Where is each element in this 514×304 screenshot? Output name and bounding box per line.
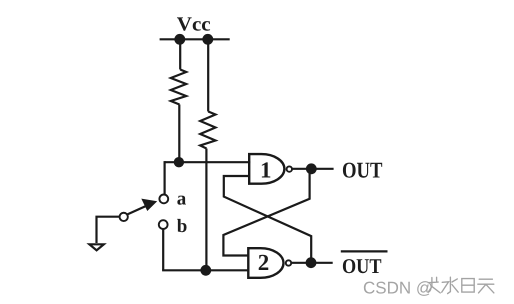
char chang [428,277,440,293]
wire U2 output to OUT-bar [292,262,333,264]
bottom rail wire to NAND2 lower input [162,269,249,271]
wire node A to NAND1 upper input [165,161,251,163]
svg-text:OUT: OUT [342,254,382,278]
wire Vcc rail to resistor R1 [179,39,181,69]
wire Vcc rail to resistor R2 [207,39,209,111]
cross wire U2 output to U1 lower input [224,176,311,263]
ground [89,244,103,250]
junction dot bottom rail / R2 [200,265,211,276]
switch arm wire [128,206,147,215]
label OUT-bar overline [341,250,388,252]
wire U1 output to OUT [292,168,333,170]
watermark chinese characters [428,277,494,293]
Vcc power rail [160,38,230,40]
wire switch pole to ground [97,217,120,243]
junction dot U2 output [306,257,317,268]
junction dot node A [174,157,184,167]
svg-text:2: 2 [258,250,270,275]
switch contact b [159,220,168,229]
resistor R2 [200,112,215,149]
switch contact a [159,195,168,204]
cross wire U1 output to U2 upper input [223,169,309,256]
wire node A down to switch contact a [164,161,166,194]
char tian [478,279,494,293]
wire R1 to node A [178,105,180,163]
char yue [462,279,474,293]
wire R2 to bottom rail (crosses node A wire, no junction) [205,149,207,271]
U2 output bubble [286,260,291,265]
svg-text:CSDN @: CSDN @ [363,279,433,298]
NAND gate U1 [249,154,284,184]
svg-text:1: 1 [260,158,272,183]
svg-text:Vcc: Vcc [177,14,211,36]
U1 output bubble [287,166,292,171]
char shui [442,277,459,293]
resistor R1 [171,70,186,105]
junction dot U1 output [306,163,317,174]
svg-text:OUT: OUT [342,157,383,182]
switch pole circle [120,213,128,221]
junction dot Vcc rail / R1 [174,34,185,45]
svg-text:b: b [177,216,188,237]
switch arm arrowhead [141,199,157,211]
junction dot Vcc rail / R2 [202,34,213,45]
wire contact b to bottom rail [162,230,164,271]
svg-text:a: a [177,189,187,210]
NAND gate U2 [248,248,283,278]
